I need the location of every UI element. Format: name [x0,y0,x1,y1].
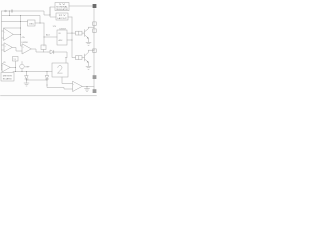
svg-text:ADJ: ADJ [59,39,63,42]
capacitor C1 [5,10,7,12]
wire U5 output [10,67,16,69]
regulator box A1 [55,3,69,11]
diode D1 [48,51,50,53]
wire x44 vertical [43,23,45,46]
wire W3 second rail [2,16,40,24]
resistor R5 box [76,31,83,35]
wire K1 bottom to U6 [62,77,73,84]
wire bottom bus [1,95,97,97]
input network small parts top-left [5,10,13,16]
regulator U4 box [57,30,67,45]
transistor Q2 [82,57,85,59]
wire Q2 collector [89,49,95,51]
wire top rail W1 [2,7,56,15]
resistor R6 box [76,56,83,60]
wire opamp A inputs [2,30,4,32]
wire U1 output [13,34,21,36]
terminal T5 [93,29,97,33]
terminal T3 [93,89,97,93]
symbol inside K1 [58,66,63,74]
svg-text:LM358: LM358 [22,42,29,44]
box K1 [52,63,68,77]
wire U2 output [12,48,22,52]
wire mid bus x72 [72,17,76,58]
wire U2 inputs [2,44,5,46]
junction dots [9,10,95,87]
svg-text:47k: 47k [22,37,25,39]
ground D2 [24,82,29,84]
svg-text:METER: METER [3,76,13,78]
op-amp U5 [2,64,10,73]
box XTAL Y1 [13,57,19,62]
wire Q1 collector [89,26,95,28]
svg-text:+: + [4,31,5,33]
text smudges [3,4,75,92]
svg-text:LM317: LM317 [60,28,67,30]
wire reg2 out [68,16,72,18]
box J2 label box [1,73,14,82]
wire R4 bottom [43,50,45,53]
wire feedback line [4,27,21,29]
terminal T4 [93,22,97,26]
resistor R4 box [41,45,46,50]
resistor R3 box [28,20,36,26]
zener D3 [46,72,48,76]
wire U4 right pins [67,32,76,34]
wire Y1 vertical [15,61,17,72]
wire mid vertical x20 [21,16,23,47]
svg-text:REGULATOR: REGULATOR [56,8,68,11]
wire K1 top [65,58,67,64]
op-amp U6 [73,82,83,92]
wire R3 output [35,22,44,24]
wire left vertical bus [1,11,3,70]
wire D3 to U6 [47,85,73,89]
wire top terminal [69,5,93,7]
zener D2 [26,72,28,76]
wire U6 output [82,86,94,88]
ground Q2 [86,65,91,67]
svg-text:+: + [23,46,24,48]
wire U5 inputs [1,65,4,67]
terminal T2 [93,75,97,79]
op-amp U2 [4,43,12,52]
wire right bus x94 [93,9,95,91]
op-amp U3 [22,44,31,54]
svg-text:12 V: 12 V [59,15,67,17]
svg-text:ADJ: ADJ [46,34,50,37]
regulator box A2 [56,13,68,20]
terminal T1 [93,4,97,8]
wire link D2-D3 [27,79,48,81]
svg-text:LAYOUT: LAYOUT [57,17,67,20]
svg-text:+: + [5,45,6,47]
ground Q1 [86,41,91,43]
svg-text:BOARD: BOARD [3,78,13,81]
terminal pads [93,4,97,93]
wire link [9,11,11,16]
wire to reg box5 left [44,36,57,38]
wire regulator2 feed [50,7,56,17]
transistor Q1 [82,32,85,34]
svg-text:+: + [73,84,74,86]
lamp DS1 circle [20,64,25,69]
svg-text:OSC: OSC [29,23,35,25]
wire bottom bus y71 [13,71,52,73]
terminal T6 [93,49,97,53]
wire U3 output [31,49,48,52]
wire W4 to box R3 [2,21,28,23]
ground U6 [86,87,88,89]
op-amp U1 [4,29,14,41]
